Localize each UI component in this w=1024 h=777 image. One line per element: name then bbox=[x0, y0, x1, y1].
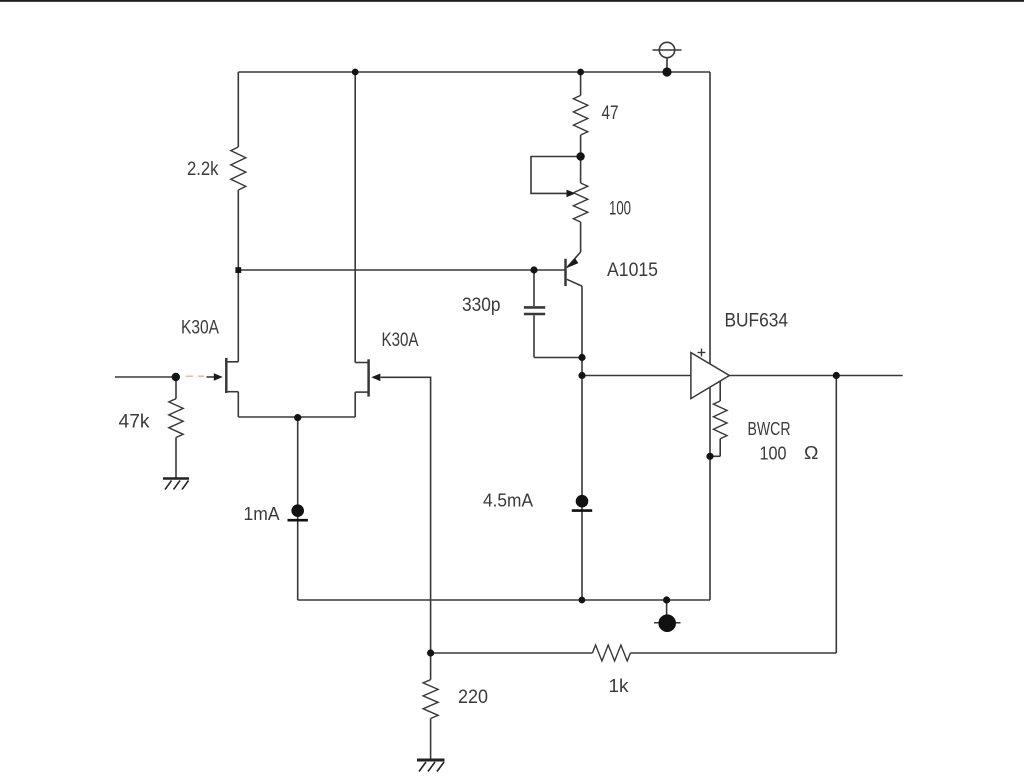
wire pot wiper bracket bbox=[531, 157, 581, 194]
svg-text:4.5mA: 4.5mA bbox=[483, 491, 533, 511]
svg-text:BUF634: BUF634 bbox=[725, 311, 789, 332]
svg-text:220: 220 bbox=[458, 687, 488, 708]
node 47/pot junction bbox=[576, 152, 584, 160]
wire 1mA drop bbox=[297, 418, 299, 600]
node collector bottom bbox=[579, 597, 586, 604]
resistor BWCR 100 bbox=[710, 381, 727, 456]
ground (47k) bbox=[163, 479, 189, 490]
node buffer input tap bbox=[578, 372, 585, 379]
top border line bbox=[0, 0, 1024, 2]
wire right gate drop bbox=[381, 377, 431, 653]
svg-text:100: 100 bbox=[760, 444, 787, 464]
svg-text:330p: 330p bbox=[462, 295, 501, 316]
svg-text:K30A: K30A bbox=[382, 330, 419, 351]
wire base (node to A1015) bbox=[238, 269, 565, 271]
svg-text:A1015: A1015 bbox=[607, 260, 658, 281]
node common source bbox=[294, 414, 301, 421]
current source 4.5mA bbox=[572, 495, 592, 511]
svg-text:1k: 1k bbox=[609, 676, 630, 696]
wire left JFET drain bbox=[237, 270, 239, 362]
right gate arrow bbox=[371, 374, 380, 382]
svg-text:47k: 47k bbox=[119, 412, 150, 433]
node feedback/220 bbox=[427, 649, 434, 656]
wire bottom rail bbox=[298, 599, 710, 601]
node cap/collector bbox=[578, 354, 585, 361]
ground (220) bbox=[417, 760, 445, 772]
node square (2.2k / drain / base) bbox=[235, 267, 241, 273]
current source 1mA bbox=[288, 504, 308, 520]
resistor 2.2k bbox=[231, 72, 246, 270]
wire common source bbox=[238, 392, 355, 417]
pot wiper arrow bbox=[567, 190, 576, 198]
wire right JFET drain drop bbox=[354, 72, 356, 363]
resistor 47k bbox=[169, 377, 183, 478]
JFET K30A right bbox=[355, 359, 368, 396]
wire buffer input bbox=[582, 375, 691, 377]
node terminal top bbox=[663, 596, 670, 603]
resistor 220 bbox=[423, 653, 438, 760]
svg-text:1mA: 1mA bbox=[244, 504, 280, 524]
node BWCR return bbox=[706, 453, 713, 460]
wire buffer output bbox=[729, 375, 902, 377]
op-amp buffer BUF634 bbox=[691, 349, 730, 399]
node drain right / rail bbox=[352, 69, 359, 76]
node power rail bbox=[662, 67, 671, 76]
output terminal bbox=[654, 600, 681, 632]
svg-text:47: 47 bbox=[602, 103, 619, 124]
wire collector down to bottom rail bbox=[581, 286, 583, 600]
wire feedback horizontal right bbox=[630, 652, 836, 654]
node base/cap bbox=[530, 266, 537, 273]
svg-text:Ω: Ω bbox=[804, 443, 819, 463]
power terminal symbol bbox=[653, 42, 682, 72]
svg-text:2.2k: 2.2k bbox=[187, 159, 219, 180]
node output bbox=[833, 372, 840, 379]
svg-text:BWCR: BWCR bbox=[748, 419, 791, 439]
node 47 top rail bbox=[577, 69, 584, 76]
red dashed gate segment bbox=[186, 375, 204, 377]
wire feedback horizontal left bbox=[431, 652, 593, 654]
svg-text:K30A: K30A bbox=[181, 318, 219, 339]
wire input bbox=[115, 376, 180, 378]
potentiometer 100 bbox=[573, 157, 587, 253]
wire feedback drop bbox=[835, 376, 837, 654]
transistor A1015 (PNP) bbox=[566, 252, 583, 286]
wire right supply drop (behind buffer) bbox=[709, 72, 711, 600]
left gate arrow bbox=[207, 373, 223, 381]
resistor 1k bbox=[592, 645, 630, 661]
resistor 47 bbox=[573, 72, 587, 157]
wire top supply rail bbox=[238, 71, 710, 73]
svg-text:100: 100 bbox=[609, 199, 631, 220]
node input/47k bbox=[172, 373, 180, 381]
JFET K30A left bbox=[226, 358, 238, 393]
capacitor 330p bbox=[524, 270, 582, 358]
